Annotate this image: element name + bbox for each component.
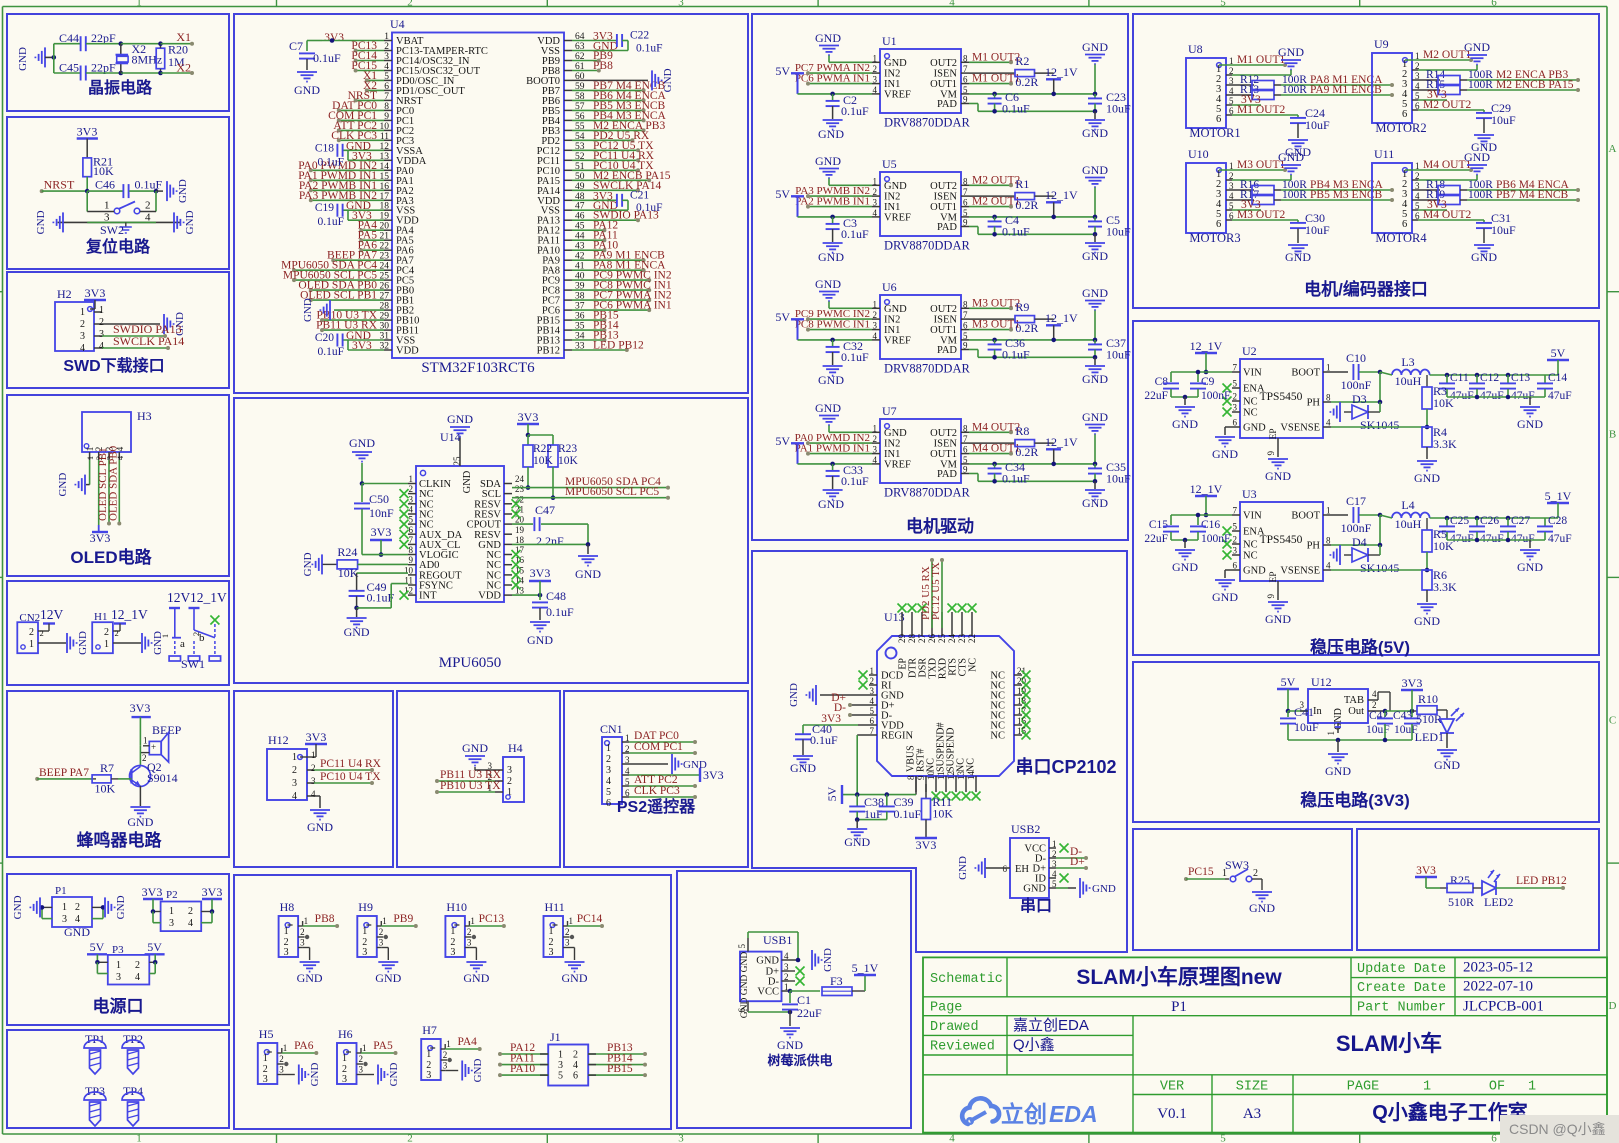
svg-text:C28: C28	[1548, 515, 1567, 527]
svg-text:10uF: 10uF	[1106, 225, 1131, 239]
svg-text:GND: GND	[297, 971, 323, 985]
svg-text:C13: C13	[1511, 372, 1530, 384]
svg-text:GND: GND	[1471, 250, 1497, 264]
svg-text:10uF: 10uF	[1294, 720, 1319, 734]
svg-text:4: 4	[311, 789, 316, 799]
svg-text:SK1045: SK1045	[1360, 418, 1399, 432]
svg-text:3V3: 3V3	[1402, 676, 1423, 690]
svg-text:GND: GND	[1464, 40, 1490, 54]
svg-text:C43: C43	[1393, 710, 1412, 722]
svg-text:2: 2	[443, 1050, 448, 1060]
svg-text:3: 3	[169, 918, 174, 929]
svg-text:3V3: 3V3	[371, 525, 392, 539]
svg-text:GND: GND	[662, 68, 674, 92]
svg-text:5_1V: 5_1V	[1545, 489, 1572, 503]
svg-text:1: 1	[104, 200, 110, 212]
svg-text:J1: J1	[550, 1030, 561, 1044]
svg-text:5: 5	[409, 515, 414, 525]
svg-text:3.3K: 3.3K	[1433, 580, 1457, 594]
svg-text:IN2: IN2	[884, 439, 900, 450]
svg-text:NC: NC	[1243, 540, 1258, 551]
svg-text:2023-05-12: 2023-05-12	[1463, 960, 1533, 976]
svg-text:1: 1	[409, 474, 414, 484]
svg-text:1: 1	[136, 1133, 142, 1143]
svg-text:TPS5450: TPS5450	[1260, 391, 1303, 403]
svg-text:TP2: TP2	[123, 1032, 143, 1046]
svg-text:BOOT: BOOT	[1291, 511, 1320, 522]
svg-text:3V3: 3V3	[324, 32, 344, 44]
svg-text:2: 2	[135, 960, 140, 971]
svg-text:2: 2	[1372, 700, 1377, 710]
svg-text:STM32F103RCT6: STM32F103RCT6	[421, 360, 535, 376]
svg-text:19: 19	[515, 525, 525, 535]
svg-text:GND: GND	[575, 567, 601, 581]
svg-text:8: 8	[963, 423, 968, 433]
svg-text:22uF: 22uF	[797, 1006, 822, 1020]
svg-text:3: 3	[359, 1065, 364, 1075]
svg-text:C50: C50	[369, 492, 389, 506]
svg-text:1: 1	[450, 926, 455, 937]
svg-text:R8: R8	[1015, 424, 1029, 438]
svg-text:8: 8	[963, 176, 968, 186]
svg-text:Create Date: Create Date	[1357, 981, 1446, 996]
svg-text:10uH: 10uH	[1395, 517, 1422, 531]
svg-text:12V: 12V	[167, 590, 191, 605]
svg-text:5: 5	[963, 331, 968, 341]
svg-text:GND: GND	[1172, 417, 1198, 431]
svg-text:2: 2	[507, 776, 512, 787]
svg-text:18: 18	[515, 535, 525, 545]
svg-text:3: 3	[426, 1070, 431, 1081]
svg-text:GND: GND	[527, 633, 553, 647]
svg-text:C42: C42	[1369, 710, 1388, 722]
svg-text:2: 2	[407, 1133, 413, 1143]
svg-text:0.1uF: 0.1uF	[135, 177, 163, 191]
svg-text:B: B	[1609, 429, 1616, 441]
svg-text:GND: GND	[1243, 566, 1266, 577]
svg-text:1: 1	[873, 423, 878, 433]
svg-text:10uF: 10uF	[1106, 472, 1131, 486]
svg-text:C47: C47	[535, 503, 555, 517]
svg-text:R2: R2	[1015, 54, 1029, 68]
svg-text:OLED SDA PB0: OLED SDA PB0	[108, 445, 120, 521]
svg-text:7: 7	[963, 434, 968, 444]
svg-text:U10: U10	[1188, 147, 1209, 161]
svg-text:4: 4	[80, 343, 85, 354]
svg-text:C22: C22	[630, 30, 649, 42]
svg-text:C12: C12	[1480, 372, 1499, 384]
svg-text:3: 3	[443, 1061, 448, 1071]
svg-text:REGIN: REGIN	[881, 731, 913, 742]
svg-text:EDA: EDA	[1049, 1101, 1098, 1127]
svg-text:D+: D+	[1070, 856, 1085, 868]
svg-text:1: 1	[362, 926, 367, 937]
svg-text:6: 6	[963, 445, 968, 455]
svg-text:GND: GND	[294, 83, 320, 97]
svg-text:23: 23	[957, 634, 967, 644]
svg-text:C17: C17	[1346, 494, 1366, 508]
svg-text:2: 2	[359, 1054, 364, 1064]
svg-text:100nF: 100nF	[1341, 521, 1372, 535]
svg-text:3: 3	[99, 329, 104, 340]
svg-text:3V3: 3V3	[142, 885, 163, 899]
svg-text:5: 5	[1220, 0, 1226, 9]
svg-text:C48: C48	[546, 589, 566, 603]
svg-text:5V: 5V	[775, 187, 790, 201]
svg-text:C15: C15	[1149, 519, 1168, 531]
svg-text:12_1V: 12_1V	[1045, 311, 1078, 325]
svg-text:3: 3	[80, 331, 85, 342]
svg-text:EP: EP	[1269, 571, 1279, 582]
svg-text:0.1uF: 0.1uF	[636, 43, 663, 55]
svg-text:2: 2	[311, 763, 316, 773]
svg-text:GND: GND	[375, 971, 401, 985]
svg-text:U12: U12	[1311, 675, 1332, 689]
svg-text:3: 3	[873, 445, 878, 455]
svg-text:ISEN: ISEN	[934, 315, 958, 326]
svg-text:5: 5	[1233, 379, 1238, 389]
svg-text:NC: NC	[990, 731, 1005, 742]
svg-text:VCC: VCC	[757, 987, 779, 998]
svg-text:8MHz: 8MHz	[132, 53, 163, 67]
svg-text:GND: GND	[1464, 150, 1490, 164]
svg-text:1: 1	[284, 926, 289, 937]
svg-text:5: 5	[606, 787, 611, 798]
svg-text:立创: 立创	[1001, 1101, 1047, 1127]
svg-text:1: 1	[160, 634, 170, 638]
svg-text:510R: 510R	[1416, 712, 1442, 726]
svg-text:PB8: PB8	[593, 60, 613, 72]
svg-text:GND: GND	[884, 58, 907, 69]
svg-text:L4: L4	[1401, 498, 1414, 512]
svg-text:1: 1	[283, 1043, 288, 1053]
svg-text:PC15: PC15	[1188, 866, 1214, 878]
svg-text:GND: GND	[815, 401, 841, 415]
svg-text:9: 9	[963, 218, 968, 228]
svg-text:10K: 10K	[338, 566, 359, 580]
svg-text:5: 5	[963, 208, 968, 218]
svg-text:GND: GND	[349, 436, 375, 450]
svg-text:6: 6	[1216, 219, 1221, 230]
svg-text:3V3: 3V3	[703, 768, 724, 782]
svg-text:1: 1	[80, 307, 85, 318]
svg-text:2: 2	[142, 753, 147, 763]
svg-text:R9: R9	[1015, 300, 1029, 314]
svg-text:GND: GND	[1082, 163, 1108, 177]
svg-text:GND: GND	[1434, 758, 1460, 772]
svg-text:Page: Page	[930, 1001, 962, 1016]
svg-text:GND: GND	[184, 210, 196, 234]
svg-text:GND: GND	[1082, 286, 1108, 300]
svg-text:GND: GND	[1285, 250, 1311, 264]
svg-text:VREF: VREF	[884, 89, 911, 100]
svg-text:PA4: PA4	[457, 1036, 477, 1048]
svg-text:3: 3	[558, 1060, 563, 1071]
svg-text:电机驱动: 电机驱动	[906, 516, 974, 536]
svg-text:1: 1	[569, 916, 574, 926]
svg-text:2: 2	[606, 754, 611, 765]
svg-text:R22: R22	[533, 443, 552, 455]
svg-text:GND: GND	[1278, 45, 1304, 59]
svg-text:47uF: 47uF	[1511, 390, 1535, 402]
svg-text:GND: GND	[1278, 150, 1304, 164]
svg-text:GND: GND	[884, 304, 907, 315]
svg-text:H2: H2	[57, 287, 72, 301]
svg-text:9: 9	[963, 95, 968, 105]
svg-text:C10: C10	[1346, 351, 1366, 365]
svg-text:10K: 10K	[95, 782, 116, 796]
svg-text:C45: C45	[59, 60, 79, 74]
svg-text:P1: P1	[1171, 999, 1187, 1015]
svg-text:GND: GND	[844, 835, 870, 849]
svg-text:28: 28	[907, 634, 917, 644]
svg-text:GND: GND	[884, 428, 907, 439]
svg-text:0.1uF: 0.1uF	[636, 202, 663, 214]
svg-text:4: 4	[873, 85, 878, 95]
svg-text:GND: GND	[12, 895, 24, 919]
svg-text:0.2R: 0.2R	[1015, 75, 1038, 89]
svg-text:3: 3	[300, 938, 305, 948]
svg-text:29: 29	[897, 634, 907, 644]
svg-text:GND: GND	[815, 154, 841, 168]
svg-text:C46: C46	[95, 177, 115, 191]
svg-text:0.1uF: 0.1uF	[313, 51, 341, 65]
svg-text:GND: GND	[1082, 249, 1108, 263]
svg-text:EH: EH	[1015, 864, 1029, 875]
svg-text:C26: C26	[1480, 515, 1499, 527]
svg-text:1: 1	[169, 906, 174, 917]
svg-text:3: 3	[362, 947, 367, 958]
svg-text:TP1: TP1	[85, 1032, 105, 1046]
svg-text:1: 1	[62, 902, 67, 913]
svg-text:0.1uF: 0.1uF	[546, 605, 574, 619]
svg-text:8: 8	[963, 299, 968, 309]
svg-text:GND: GND	[77, 631, 89, 655]
svg-text:1: 1	[873, 299, 878, 309]
svg-text:4: 4	[1326, 418, 1331, 428]
svg-text:IN2: IN2	[884, 192, 900, 203]
svg-text:2: 2	[191, 632, 201, 636]
svg-text:GND: GND	[1082, 410, 1108, 424]
svg-text:In: In	[1313, 706, 1322, 717]
svg-text:LED PB12: LED PB12	[593, 340, 644, 352]
svg-text:U14: U14	[440, 430, 461, 444]
svg-text:3: 3	[279, 1065, 284, 1075]
svg-text:OUT2: OUT2	[930, 58, 957, 69]
svg-text:26: 26	[927, 634, 937, 644]
svg-text:GND: GND	[1172, 560, 1198, 574]
svg-text:4: 4	[873, 208, 878, 218]
svg-text:JLCPCB-001: JLCPCB-001	[1463, 999, 1544, 1015]
svg-text:9: 9	[963, 341, 968, 351]
svg-text:10uF: 10uF	[1491, 223, 1516, 237]
svg-text:C: C	[1609, 714, 1616, 726]
svg-text:8: 8	[963, 53, 968, 63]
svg-text:U8: U8	[1188, 42, 1203, 56]
svg-text:OUT2: OUT2	[930, 428, 957, 439]
svg-text:Q小鑫: Q小鑫	[1013, 1036, 1055, 1054]
svg-text:1: 1	[549, 926, 554, 937]
svg-text:6: 6	[963, 75, 968, 85]
svg-text:P2: P2	[166, 889, 178, 901]
svg-text:3: 3	[379, 938, 384, 948]
svg-text:0.1uF: 0.1uF	[841, 350, 869, 364]
svg-text:6: 6	[737, 1008, 747, 1013]
svg-text:7: 7	[870, 726, 875, 736]
svg-text:3: 3	[873, 75, 878, 85]
svg-text:A: A	[1609, 143, 1617, 155]
svg-text:GND: GND	[1414, 471, 1440, 485]
svg-text:2: 2	[300, 927, 305, 937]
svg-text:2: 2	[1253, 868, 1258, 879]
svg-text:1: 1	[292, 752, 297, 763]
svg-text:PC12 U5 TX: PC12 U5 TX	[930, 562, 942, 620]
svg-text:10K: 10K	[93, 164, 114, 178]
svg-text:6: 6	[963, 321, 968, 331]
svg-text:1: 1	[311, 750, 316, 760]
svg-text:2: 2	[99, 317, 104, 328]
svg-text:4: 4	[606, 776, 611, 787]
svg-text:SW1: SW1	[181, 657, 205, 671]
svg-text:1: 1	[99, 305, 104, 316]
svg-text:2: 2	[384, 42, 389, 52]
svg-text:3: 3	[467, 938, 472, 948]
svg-text:U9: U9	[1374, 37, 1389, 51]
svg-text:GND: GND	[1212, 447, 1238, 461]
svg-text:树莓派供电: 树莓派供电	[767, 1053, 832, 1068]
svg-text:8: 8	[1326, 393, 1331, 403]
svg-text:5V: 5V	[825, 786, 839, 801]
svg-text:0.1uF: 0.1uF	[841, 227, 869, 241]
svg-text:F3: F3	[830, 974, 843, 988]
svg-text:GND: GND	[447, 412, 473, 426]
svg-text:2: 2	[292, 765, 297, 776]
svg-text:6: 6	[409, 525, 414, 535]
svg-text:X1: X1	[176, 30, 191, 44]
svg-text:27: 27	[917, 634, 927, 644]
svg-text:0.1uF: 0.1uF	[317, 216, 344, 228]
svg-text:嘉立创EDA: 嘉立创EDA	[1013, 1017, 1089, 1034]
svg-text:1: 1	[116, 960, 121, 971]
svg-text:R10: R10	[1418, 692, 1438, 706]
svg-text:H6: H6	[338, 1027, 353, 1041]
svg-text:PB8: PB8	[315, 913, 335, 925]
svg-text:5: 5	[384, 72, 389, 82]
svg-text:8: 8	[906, 775, 916, 780]
svg-text:100nF: 100nF	[1341, 378, 1372, 392]
svg-text:GND: GND	[815, 277, 841, 291]
svg-text:5V: 5V	[775, 310, 790, 324]
svg-text:2: 2	[1233, 392, 1238, 402]
svg-text:2: 2	[1052, 849, 1057, 859]
svg-text:TPS5450: TPS5450	[1260, 534, 1303, 546]
svg-text:3V3: 3V3	[1416, 865, 1436, 877]
svg-text:串口: 串口	[1020, 896, 1052, 915]
svg-text:7: 7	[963, 64, 968, 74]
svg-text:C7: C7	[289, 39, 303, 53]
svg-text:0.2R: 0.2R	[1015, 321, 1038, 335]
svg-text:TAB: TAB	[1344, 695, 1364, 706]
svg-text:100nF: 100nF	[1201, 533, 1230, 545]
svg-text:C16: C16	[1201, 519, 1220, 531]
svg-text:47uF: 47uF	[1548, 390, 1572, 402]
svg-text:X2: X2	[176, 60, 191, 74]
svg-text:PB9: PB9	[393, 913, 413, 925]
svg-text:6: 6	[1233, 561, 1238, 571]
svg-text:5V: 5V	[90, 940, 105, 954]
svg-text:D3: D3	[1352, 392, 1367, 406]
svg-text:5: 5	[737, 944, 747, 949]
svg-text:2: 2	[870, 676, 875, 686]
svg-text:H12: H12	[268, 733, 289, 747]
svg-text:GND: GND	[1082, 496, 1108, 510]
svg-text:6: 6	[1402, 219, 1407, 230]
svg-text:USB2: USB2	[1011, 822, 1040, 836]
svg-text:U6: U6	[882, 280, 897, 294]
svg-text:GND: GND	[1243, 423, 1266, 434]
svg-text:GND: GND	[309, 1063, 321, 1087]
svg-text:COM PC1: COM PC1	[634, 741, 683, 753]
svg-text:10nF: 10nF	[369, 506, 394, 520]
svg-text:1: 1	[1326, 731, 1336, 736]
svg-text:1: 1	[342, 1053, 347, 1064]
svg-text:12_1V: 12_1V	[1045, 435, 1078, 449]
svg-text:+: +	[151, 742, 156, 752]
svg-text:3: 3	[606, 765, 611, 776]
svg-text:6: 6	[1402, 109, 1407, 120]
svg-text:3: 3	[873, 321, 878, 331]
svg-text:2: 2	[565, 927, 570, 937]
svg-text:47uF: 47uF	[1480, 533, 1504, 545]
svg-text:PAD: PAD	[937, 99, 957, 110]
svg-text:0.1uF: 0.1uF	[894, 807, 922, 821]
svg-text:VSENSE: VSENSE	[1280, 423, 1320, 434]
svg-text:GND: GND	[302, 298, 314, 322]
svg-text:1: 1	[304, 916, 309, 926]
svg-text:GND: GND	[344, 625, 370, 639]
svg-text:NC: NC	[968, 658, 979, 672]
svg-text:10: 10	[404, 565, 414, 575]
svg-text:GND: GND	[1249, 901, 1275, 915]
svg-text:1: 1	[470, 916, 475, 926]
svg-text:U4: U4	[390, 17, 405, 31]
svg-text:1: 1	[625, 733, 630, 743]
svg-text:MOTOR2: MOTOR2	[1375, 121, 1426, 135]
svg-text:GND: GND	[884, 181, 907, 192]
svg-text:4: 4	[870, 696, 875, 706]
svg-text:5: 5	[870, 706, 875, 716]
svg-text:OLED电路: OLED电路	[70, 547, 152, 567]
svg-text:8: 8	[409, 545, 414, 555]
svg-text:PA10: PA10	[510, 1063, 535, 1075]
svg-text:1: 1	[143, 736, 148, 746]
svg-text:VREF: VREF	[884, 335, 911, 346]
svg-text:C21: C21	[630, 189, 649, 201]
svg-text:1: 1	[29, 639, 34, 650]
svg-text:12_1V: 12_1V	[1190, 482, 1223, 496]
svg-text:7: 7	[963, 310, 968, 320]
svg-text:3: 3	[116, 972, 121, 983]
svg-text:H10: H10	[446, 900, 467, 914]
svg-text:U5: U5	[882, 157, 897, 171]
svg-text:VER: VER	[1160, 1080, 1184, 1095]
svg-text:2: 2	[873, 187, 878, 197]
svg-text:2022-07-10: 2022-07-10	[1463, 979, 1533, 995]
svg-text:6: 6	[384, 82, 389, 92]
svg-text:4: 4	[292, 791, 297, 802]
svg-text:5: 5	[963, 85, 968, 95]
svg-text:10uF: 10uF	[1106, 348, 1131, 362]
